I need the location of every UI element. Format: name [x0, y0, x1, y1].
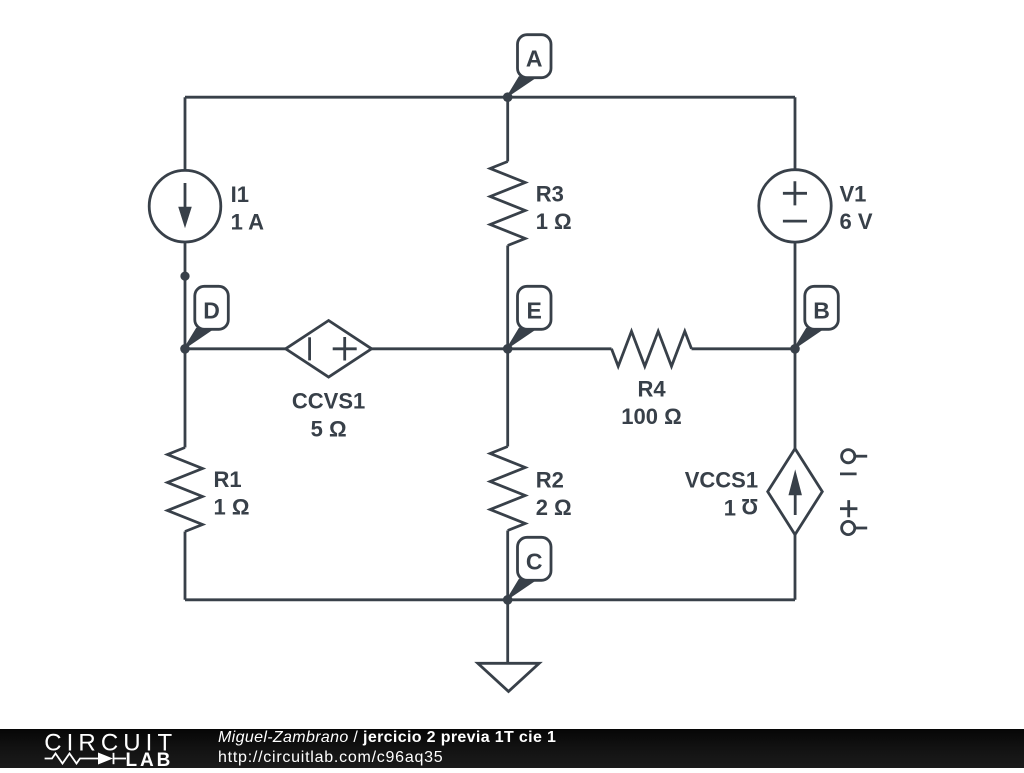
wire node C to ground [506, 600, 509, 664]
node C junction dot [503, 595, 513, 605]
svg-text:1 A: 1 A [231, 210, 265, 235]
node A label box [518, 35, 552, 78]
svg-text:A: A [526, 46, 543, 72]
CCVS1 minus (bar) [308, 337, 311, 360]
resistor R4 [612, 331, 692, 366]
V1 plus sign [783, 181, 807, 205]
wire node D to R1 [184, 349, 187, 448]
svg-text:LAB: LAB [126, 750, 174, 768]
node D junction dot [180, 344, 190, 354]
svg-text:1 Ω: 1 Ω [536, 209, 572, 234]
wire node A to R3 [506, 97, 509, 161]
footer title text [218, 728, 556, 747]
dependent source CCVS1 diamond [286, 321, 372, 378]
wire bottom rail [185, 598, 795, 601]
svg-text:1: 1 [724, 495, 736, 520]
svg-text:R3: R3 [536, 182, 564, 207]
svg-text:V1: V1 [840, 182, 867, 207]
resistor R1 [168, 448, 203, 532]
node B label box [805, 286, 839, 329]
node D label pointer [184, 328, 212, 349]
node D label box [195, 286, 229, 329]
wire node B to VCCS1 [794, 349, 797, 449]
svg-text:100 Ω: 100 Ω [621, 404, 681, 429]
node B label pointer [794, 328, 822, 349]
V1 minus sign [783, 220, 807, 223]
voltage source V1 circle [759, 170, 831, 242]
svg-text:B: B [813, 297, 830, 323]
CircuitLab logo [0, 729, 200, 768]
node E label box [518, 286, 552, 329]
wire VCCS1 to bottom rail [794, 535, 797, 600]
svg-text:I1: I1 [231, 182, 249, 207]
footer url text [218, 749, 443, 767]
wire V1 to node B [794, 242, 797, 349]
svg-text:2 Ω: 2 Ω [536, 495, 572, 520]
wire R1 to bottom rail [184, 532, 187, 600]
svg-text:C: C [526, 548, 543, 574]
node A junction dot [503, 92, 513, 102]
node E label pointer [507, 328, 535, 349]
wire top rail A [185, 96, 795, 99]
wire R3 to node E [506, 246, 509, 349]
wire node D to CCVS1 [185, 347, 286, 350]
resistor R2 [490, 447, 525, 531]
node E junction dot [503, 344, 513, 354]
wire right rail top (to V1) [794, 97, 797, 170]
svg-text:Ω: Ω [741, 494, 758, 519]
svg-text:CCVS1: CCVS1 [292, 389, 365, 414]
svg-text:R2: R2 [536, 468, 564, 493]
svg-text:6 V: 6 V [840, 209, 873, 234]
current source I1 circle [149, 170, 221, 242]
wire left rail top (to I1) [184, 97, 187, 170]
node C label box [518, 537, 552, 580]
wire I1 to node D [184, 242, 187, 349]
dependent source VCCS1 diamond [768, 449, 823, 535]
wire R2 to node C [506, 531, 509, 600]
junction dot below I1 [180, 272, 189, 281]
resistor R3 [490, 162, 525, 246]
svg-text:VCCS1: VCCS1 [685, 468, 758, 493]
node C label pointer [507, 579, 535, 600]
current source I1 arrow [184, 183, 187, 209]
node A label pointer [507, 77, 535, 98]
wire R4 to node B [692, 347, 796, 350]
svg-text:5 Ω: 5 Ω [311, 416, 347, 441]
wire CCVS1 to node E [372, 347, 508, 350]
VCCS1 control terminal top circle [842, 450, 855, 463]
VCCS1 control plus [840, 500, 857, 517]
node B junction dot [790, 344, 800, 354]
svg-text:R1: R1 [214, 467, 242, 492]
svg-text:R4: R4 [637, 377, 666, 402]
wire node E to R2 [506, 349, 509, 447]
logo resistor-diode symbol [45, 753, 126, 764]
svg-text:E: E [527, 297, 542, 323]
svg-text:D: D [203, 297, 220, 323]
svg-text:1 Ω: 1 Ω [214, 495, 250, 520]
wire node E to R4 [508, 347, 612, 350]
VCCS1 control terminal bottom circle [842, 521, 855, 534]
VCCS1 control minus [840, 472, 857, 475]
ground symbol [478, 663, 539, 691]
CCVS1 plus sign [333, 337, 357, 361]
VCCS1 arrow [794, 493, 797, 515]
CircuitLab footer bar [0, 729, 1024, 768]
